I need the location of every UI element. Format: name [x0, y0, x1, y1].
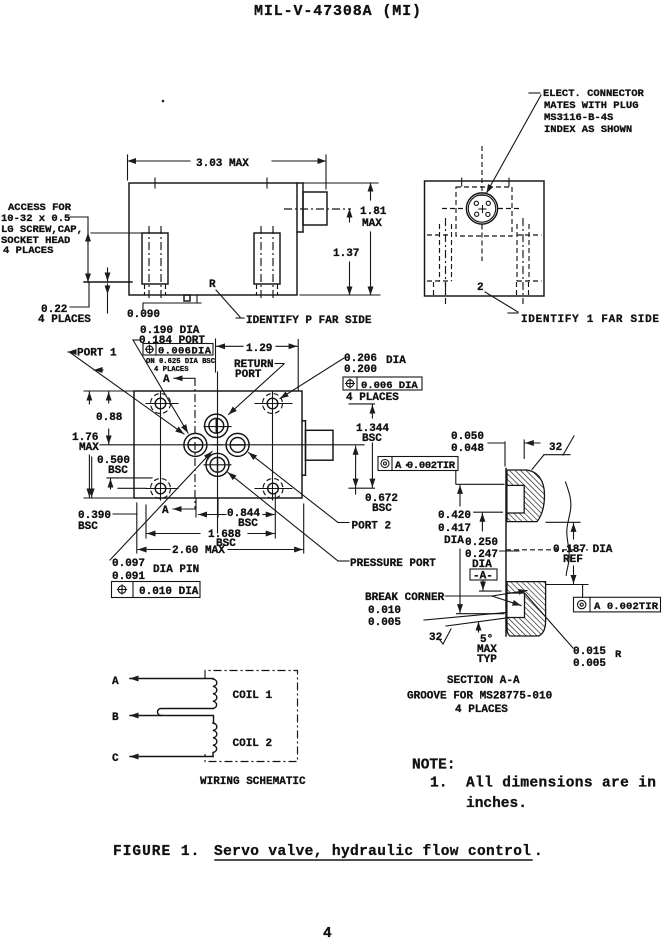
svg-text:4 PLACES: 4 PLACES: [38, 314, 91, 326]
dimension 0.050 0.048 groove width: [451, 431, 540, 466]
svg-text:32: 32: [549, 442, 562, 454]
fcf A 0.002 TIR left: [378, 457, 458, 485]
label R identify P far side: [209, 279, 372, 327]
svg-text:DIA: DIA: [444, 535, 464, 547]
end view: elect connector: [466, 193, 497, 224]
dimension 1.29: [216, 339, 299, 390]
section A-A: upper groove wall hatched: [507, 470, 545, 522]
side view: bottom notch: [184, 295, 190, 301]
svg-text:IDENTIFY P FAR SIDE: IDENTIFY P FAR SIDE: [246, 315, 372, 327]
section line A-A: [162, 374, 195, 517]
svg-text:inches.: inches.: [466, 796, 527, 812]
svg-text:4 PLACES: 4 PLACES: [455, 704, 508, 716]
svg-text:0.010: 0.010: [368, 605, 401, 617]
svg-text:WIRING SCHEMATIC: WIRING SCHEMATIC: [200, 776, 306, 788]
bottom view: port 2 right: [226, 433, 249, 456]
svg-text:0.006DIA: 0.006DIA: [158, 345, 212, 357]
fcf A 0.002 TIR right: [574, 585, 661, 614]
svg-text:All dimensions are in: All dimensions are in: [466, 776, 656, 792]
svg-text:PRESSURE PORT: PRESSURE PORT: [350, 558, 436, 570]
svg-text:DIA: DIA: [386, 355, 406, 367]
bottom view: corner hole top-left: [151, 394, 171, 414]
dimension 1.344 BSC: [349, 404, 389, 488]
svg-text:DIA PIN: DIA PIN: [153, 564, 199, 576]
svg-text:4: 4: [323, 926, 332, 938]
svg-text:GROOVE FOR MS28775-010: GROOVE FOR MS28775-010: [407, 691, 552, 703]
wire terminal B center tap: [112, 709, 214, 725]
end view: body outline: [425, 181, 545, 296]
section A-A: port face line: [505, 469, 507, 637]
coil 1: [213, 679, 273, 709]
label pressure port: [228, 473, 436, 571]
svg-text:R: R: [209, 279, 216, 291]
wiring schematic: valve outline: [205, 671, 298, 762]
svg-text:4 PLACES: 4 PLACES: [346, 392, 399, 404]
dimension 0.844 BSC: [196, 494, 275, 538]
dimension 1.81 MAX: [300, 183, 387, 295]
bottom view: return port: [205, 414, 228, 437]
svg-text:0.417: 0.417: [438, 523, 471, 535]
bottom view: corner hole bottom-left: [151, 479, 171, 499]
svg-text:0.048: 0.048: [451, 443, 484, 455]
side view: cap screw 2: [254, 178, 280, 301]
note block: [412, 758, 656, 813]
svg-text:BSC: BSC: [108, 465, 128, 477]
label port 1: [68, 348, 184, 435]
svg-text:MAX: MAX: [362, 218, 382, 230]
end view: connector centerlines: [442, 146, 521, 261]
svg-text:1.37: 1.37: [333, 248, 359, 260]
svg-text:PORT 2: PORT 2: [352, 521, 392, 533]
wire terminal A: [112, 676, 213, 688]
svg-text:COIL 1: COIL 1: [233, 690, 273, 702]
svg-text:0.88: 0.88: [96, 412, 123, 424]
svg-text:0.005: 0.005: [368, 617, 401, 629]
svg-text:MIL-V-47308A (MI): MIL-V-47308A (MI): [254, 3, 421, 20]
svg-text:A 0.002TIR: A 0.002TIR: [594, 601, 659, 613]
svg-text:32: 32: [429, 632, 442, 644]
coil 2: [213, 723, 272, 757]
taper 5 deg lines: [424, 613, 506, 667]
svg-text:4 PLACES: 4 PLACES: [154, 366, 189, 374]
svg-text:4 PLACES: 4 PLACES: [3, 245, 53, 257]
section A-A: lower groove wall hatched: [507, 582, 546, 636]
side view: cap screw 1: [142, 178, 168, 301]
bottom view: right tab: [302, 421, 333, 475]
svg-text:0.005: 0.005: [573, 658, 606, 670]
svg-text:MS3116-B-4S: MS3116-B-4S: [544, 112, 613, 124]
svg-text:ON 0.625 DIA BSC: ON 0.625 DIA BSC: [146, 358, 216, 366]
svg-text:INDEX AS SHOWN: INDEX AS SHOWN: [544, 124, 632, 136]
svg-text:1.: 1.: [430, 776, 447, 792]
side view: connector block: [284, 192, 351, 225]
svg-text:BSC: BSC: [78, 521, 98, 533]
side view: mounting flange left: [84, 281, 132, 283]
svg-text:A: A: [112, 676, 119, 688]
speck dot: [162, 100, 165, 103]
end view: left screw hidden lines: [427, 218, 452, 304]
dimension 0.500 BSC: [92, 455, 152, 497]
svg-text:PORT 1: PORT 1: [77, 348, 117, 360]
dimension 0.090: [108, 295, 202, 321]
svg-text:0.420: 0.420: [438, 510, 471, 522]
dimension 3.03 MAX: [128, 155, 327, 189]
svg-text:2: 2: [477, 282, 484, 294]
section A-A captions: [407, 675, 552, 716]
bottom view: corner hole top-right: [263, 394, 283, 414]
bottom view: pressure port bottom: [206, 453, 229, 476]
svg-text:3.03 MAX: 3.03 MAX: [196, 158, 249, 170]
svg-text:SECTION A-A: SECTION A-A: [447, 675, 520, 687]
label break corner: [365, 591, 527, 630]
svg-text:TYP: TYP: [477, 654, 497, 666]
svg-text:BSC: BSC: [238, 518, 258, 530]
fcf 0.010 dia: [112, 582, 201, 599]
label 0.097 dia pin: [110, 452, 212, 584]
svg-text:NOTE:: NOTE:: [412, 758, 456, 774]
svg-text:REF: REF: [563, 554, 583, 566]
label 2 identify 1 far side: [477, 282, 659, 326]
svg-text:0.090: 0.090: [127, 309, 160, 321]
svg-text:0.050: 0.050: [451, 431, 484, 443]
svg-text:0.200: 0.200: [344, 364, 377, 376]
label return port: [229, 359, 285, 415]
svg-text:0.010 DIA: 0.010 DIA: [139, 586, 199, 598]
dimension 0.672 BSC: [356, 446, 398, 515]
svg-text:C: C: [112, 753, 119, 765]
bottom view: dowel pin cross: [213, 440, 222, 450]
dimension 1.37: [333, 209, 359, 295]
section A-A: break line wavy: [566, 482, 571, 575]
label access for screws: [1, 202, 142, 282]
figure caption: [113, 844, 543, 860]
surface finish 32 top: [532, 436, 574, 470]
section A-A: bore centerline: [506, 549, 588, 551]
svg-text:A: A: [162, 505, 169, 517]
dimension 1.688 BSC: [146, 505, 274, 550]
svg-text:ELECT. CONNECTOR: ELECT. CONNECTOR: [543, 88, 645, 100]
svg-text:A 0.002TIR: A 0.002TIR: [395, 460, 456, 472]
svg-text:Servo valve, hydraulic flow co: Servo valve, hydraulic flow control: [214, 844, 531, 860]
svg-text:0.187 DIA: 0.187 DIA: [553, 544, 613, 556]
svg-text:PORT: PORT: [235, 369, 262, 381]
svg-text:0.006 DIA: 0.006 DIA: [361, 380, 418, 392]
svg-text:MATES WITH PLUG: MATES WITH PLUG: [544, 100, 639, 112]
dimension 0.22 4 PLACES: [38, 268, 108, 326]
svg-text:2.60 MAX: 2.60 MAX: [172, 545, 225, 557]
svg-text:BSC: BSC: [362, 433, 382, 445]
svg-text:BREAK CORNER: BREAK CORNER: [365, 592, 445, 604]
dimension 0.250 0.247 DIA: [465, 512, 519, 591]
label 0.015 0.005 R: [525, 594, 622, 671]
bottom view: port 1 left: [184, 433, 207, 456]
bottom view: corner hole bottom-right: [263, 479, 283, 499]
label port 2: [249, 453, 392, 533]
end view: right screw hidden lines: [517, 218, 542, 304]
dimension 2.60 MAX: [138, 504, 304, 557]
svg-text:0.250: 0.250: [465, 537, 498, 549]
svg-text:BSC: BSC: [372, 503, 392, 515]
svg-text:FIGURE 1.: FIGURE 1.: [113, 844, 200, 860]
svg-text:0.015: 0.015: [573, 646, 606, 658]
wire terminal C: [112, 753, 213, 765]
dimension 1.76 MAX: [72, 392, 134, 498]
svg-text:MAX: MAX: [79, 442, 99, 454]
end view: connector housing hidden outline: [456, 187, 512, 236]
label 0.190 port with fcf: [133, 325, 216, 433]
svg-text:A: A: [163, 374, 170, 386]
dimension 0.420 0.417 DIA: [438, 484, 504, 613]
svg-text:0.097: 0.097: [112, 558, 145, 570]
dimension 0.390 BSC: [78, 503, 137, 553]
svg-text:1.29: 1.29: [246, 343, 272, 355]
dimension 0.187 DIA REF: [546, 522, 613, 584]
svg-text:.: .: [534, 844, 543, 860]
label 0.206 dia 4 places: [280, 353, 422, 404]
svg-text:IDENTIFY 1 FAR SIDE: IDENTIFY 1 FAR SIDE: [521, 314, 659, 326]
svg-text:COIL 2: COIL 2: [233, 738, 273, 750]
svg-text:1.81: 1.81: [360, 206, 387, 218]
dimension 0.88: [84, 391, 134, 444]
bottom view: centerlines: [100, 372, 364, 533]
svg-text:R: R: [615, 649, 622, 661]
side view: valve body: [129, 183, 303, 295]
svg-text:B: B: [112, 712, 119, 724]
label elect connector: [487, 88, 645, 193]
bottom view: mounting plate: [134, 391, 302, 498]
